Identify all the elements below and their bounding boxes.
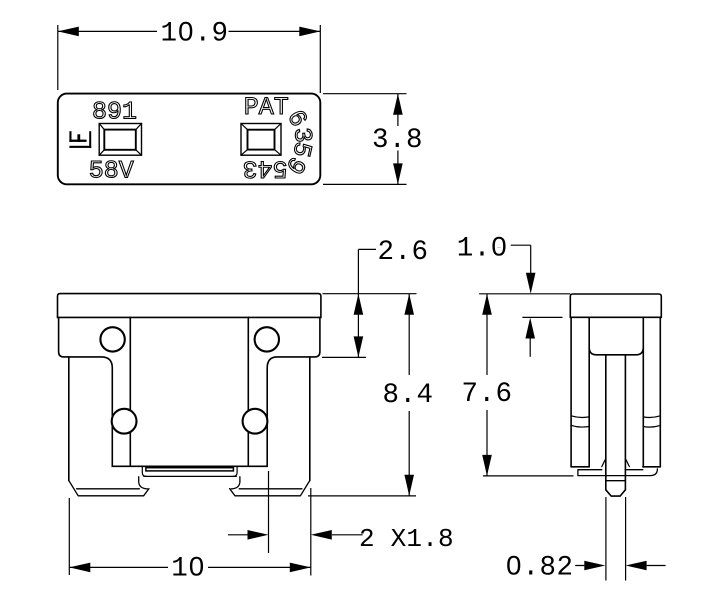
cap top extension line xyxy=(323,293,417,295)
svg-text:1.0: 1.0 xyxy=(457,233,508,264)
svg-text:7.6: 7.6 xyxy=(461,379,512,410)
element window band xyxy=(146,468,234,471)
side cap xyxy=(570,294,661,317)
svg-text:891: 891 xyxy=(92,98,137,127)
wall neck curves left xyxy=(571,416,589,427)
side outer wall left xyxy=(570,317,572,467)
side outer wall right xyxy=(659,317,661,467)
pin tip xyxy=(606,490,626,496)
svg-text:3.8: 3.8 xyxy=(372,125,423,156)
window right post xyxy=(233,466,237,476)
svg-text:0.82: 0.82 xyxy=(505,553,573,584)
left window inner xyxy=(104,130,136,150)
certification E mark xyxy=(69,131,91,148)
svg-text:58V: 58V xyxy=(89,157,134,186)
right window inner xyxy=(248,130,275,150)
lower circle left xyxy=(112,409,137,434)
bottom plate xyxy=(578,469,658,476)
wall bottom right xyxy=(643,466,661,468)
right foot xyxy=(230,477,310,496)
front view xyxy=(58,294,321,496)
right window bevel diagonals xyxy=(241,124,281,156)
pin cross line xyxy=(606,480,626,482)
top view fuse body outline xyxy=(58,94,321,185)
front cap xyxy=(58,294,321,318)
front body outline xyxy=(59,317,320,466)
left foot xyxy=(69,477,149,496)
zero dot patches xyxy=(182,28,516,569)
svg-text:543: 543 xyxy=(243,153,288,182)
wall bottom left xyxy=(571,466,589,468)
lower circle right xyxy=(243,409,268,434)
dimension 10.9 xyxy=(58,25,321,93)
dimension 1.0 xyxy=(511,245,531,357)
svg-text:10: 10 xyxy=(171,554,205,585)
svg-text:10.9: 10.9 xyxy=(160,19,228,50)
dimension 2 X 1.8 xyxy=(228,471,363,553)
upper circle left xyxy=(100,327,124,351)
right leg outer edge xyxy=(309,357,311,481)
upper circle right xyxy=(255,327,279,351)
svg-text:2 X1.8: 2 X1.8 xyxy=(359,524,454,554)
dimension 0.82 xyxy=(575,497,665,581)
window left post xyxy=(142,466,146,476)
pin side ribs xyxy=(602,460,630,467)
side cap top extension xyxy=(479,293,570,295)
dimension 7.6 xyxy=(483,294,574,476)
side inner wall right xyxy=(642,317,644,467)
side cap bottom extension xyxy=(522,316,562,318)
side inner wall left xyxy=(588,317,590,467)
svg-text:8.4: 8.4 xyxy=(382,380,433,411)
svg-text:2.6: 2.6 xyxy=(377,237,428,268)
dimension 8.4 xyxy=(308,294,416,496)
left window outer xyxy=(99,124,141,156)
inner wall line left xyxy=(129,317,131,466)
side view xyxy=(570,294,661,496)
left leg outer edge xyxy=(68,357,70,481)
dimension 2.6 xyxy=(322,249,376,357)
inner wall line right xyxy=(247,317,249,466)
right window outer xyxy=(241,124,281,156)
dimension 10 xyxy=(69,488,310,576)
left window bevel diagonals xyxy=(99,124,141,156)
cavity floor xyxy=(589,348,643,355)
wall neck curves right xyxy=(643,416,660,427)
terminal pin sides xyxy=(606,355,626,490)
dimension 3.8 xyxy=(323,94,407,185)
window lower line xyxy=(144,475,236,477)
